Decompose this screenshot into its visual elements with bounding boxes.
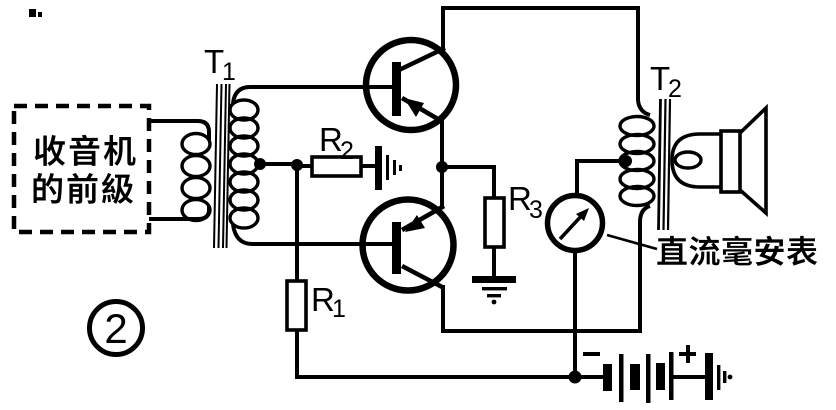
battery cell plate short [603,364,612,391]
transformer T1 core [214,84,230,248]
meter M circle [548,196,603,251]
wire T2 center tap to meter [577,161,626,196]
figure number circle 2 [90,302,143,355]
wire Q2 emitter up to node E [440,167,444,209]
resistor R2 [312,157,361,176]
transistor Q1 emitter line [402,98,443,122]
battery cell plate long [619,354,624,402]
transistor Q1 base bar [392,62,401,116]
scan specks top left [29,9,36,17]
wire R3 to ground [492,247,496,276]
junction dot R1/R2 node [291,159,303,171]
speaker cone [740,108,766,213]
pointer line to meter label [607,235,657,249]
resistor R1 [287,281,306,330]
ground symbol at battery plus (horizontal) [705,353,713,400]
ground symbol at R3 [472,276,516,283]
speaker voice coil loop [675,152,701,168]
resistor R3 [485,198,504,247]
wire junction to R2 [297,164,312,168]
svg-text:1: 1 [222,58,236,86]
battery minus wire [581,375,603,379]
battery plus wire [673,375,705,379]
battery cell plate long [669,352,674,400]
battery cell plate short [656,363,665,390]
junction dot T1 center tap [254,158,266,170]
transformer T2 core [659,99,671,230]
box text 收音机 [35,135,136,166]
wire Q1 emitter down to node E [440,120,444,167]
top rail [441,6,638,10]
wire center tap to junction [258,162,297,166]
wire bottom middle to T2 primary bottom [441,206,650,331]
wire box to T1 primary top [149,121,209,140]
svg-text:2: 2 [668,75,682,103]
meter needle arrowhead [576,208,589,221]
transistor Q1 circle [366,40,456,130]
transformer T1 primary coil [182,134,210,221]
right rail to T2 primary top [638,6,650,115]
battery plus sign [679,352,696,356]
svg-text:3: 3 [529,196,543,224]
transistor Q2 emitter arrow [405,215,425,232]
junction dot T2 center tap [620,155,632,167]
dashed box (radio front stage) [14,106,149,232]
transformer T1 secondary coil [230,100,258,228]
wire Q1 collector to top rail [441,8,445,51]
transistor Q1 collector line [399,48,445,70]
battery cell plate short [630,364,640,390]
wire box to T1 primary bottom [149,206,209,219]
wire T1 secondary bottom to Q2 base [233,225,393,244]
junction dot node E [436,161,448,173]
ground symbol at R2 (horizontal) [375,146,382,190]
wire R2 to ground [361,164,375,168]
meter needle [560,212,585,239]
label 直流毫安表 (DC milliammeter) [657,236,817,266]
svg-text:2: 2 [104,305,127,352]
wire meter to battery minus node [573,250,577,377]
transformer T2 primary coil [620,117,654,206]
transistor Q2 emitter line [402,206,444,230]
battery cell plate long [646,354,651,403]
transistor Q2 collector line [402,266,444,288]
box text 的前級 [34,173,134,204]
transistor Q1 emitter arrow [404,98,424,117]
junction dot battery minus node [569,371,582,384]
speaker dome [672,134,721,187]
wire T1 secondary top to Q1 base [233,87,393,103]
svg-text:1: 1 [332,295,346,323]
transistor Q2 circle [363,200,454,291]
svg-text:2: 2 [340,137,354,165]
speaker frame [721,131,740,192]
transistor Q2 base bar [392,222,401,274]
wire Q2 collector down [441,285,445,331]
battery minus sign [583,352,600,356]
wire node E to R3 [441,167,494,198]
wire R1 to bottom rail [297,330,575,377]
wire junction down to R1 [295,166,299,281]
